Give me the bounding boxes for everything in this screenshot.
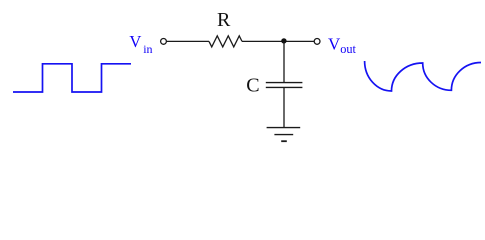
svg-text:in: in bbox=[143, 42, 152, 56]
input square waveform bbox=[13, 64, 131, 92]
input terminal (open circle) bbox=[161, 39, 167, 45]
label Vin bbox=[129, 32, 152, 56]
wire resistor to output terminal bbox=[242, 40, 314, 42]
svg-text:V: V bbox=[328, 35, 341, 54]
output waveform (RC charge/discharge curves) bbox=[365, 61, 481, 91]
ground symbol bbox=[267, 128, 301, 142]
wire node to capacitor bbox=[283, 41, 285, 82]
wire capacitor to ground bbox=[283, 87, 285, 127]
capacitor C1 plates bbox=[266, 82, 303, 84]
svg-text:V: V bbox=[129, 32, 141, 51]
node junction dot bbox=[281, 38, 286, 43]
label Vout bbox=[328, 35, 356, 56]
svg-text:C: C bbox=[246, 75, 259, 97]
resistor R1 zigzag bbox=[209, 36, 242, 47]
output terminal (open circle) bbox=[314, 39, 320, 45]
svg-text:out: out bbox=[340, 42, 356, 56]
wire input terminal to resistor bbox=[166, 40, 209, 42]
svg-text:R: R bbox=[217, 9, 231, 31]
